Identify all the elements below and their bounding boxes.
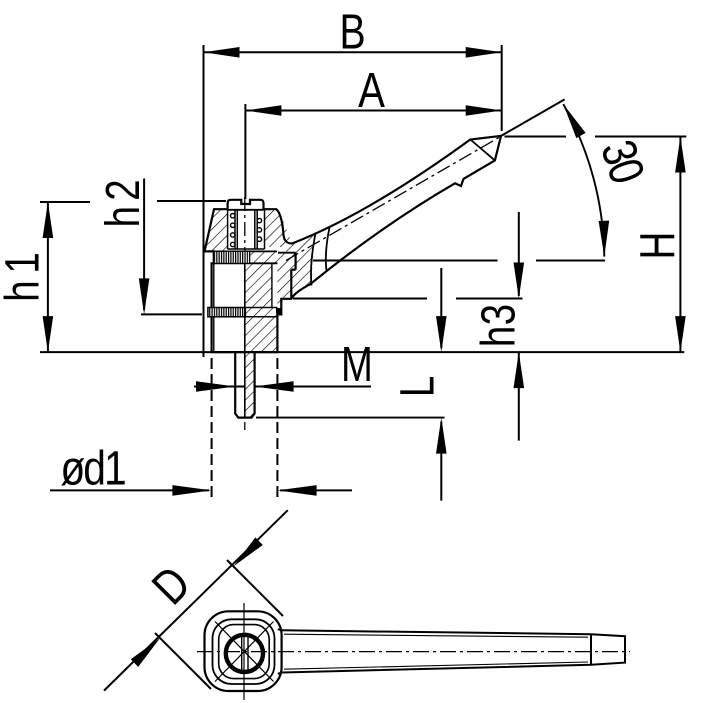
svg-text:h3: h3 bbox=[473, 304, 526, 347]
diagonals bbox=[215, 622, 274, 682]
body outline: hub + handle bbox=[205, 136, 502, 418]
handle bottom view bbox=[278, 629, 625, 674]
svg-text:A: A bbox=[358, 63, 385, 118]
wire: B dimension bbox=[204, 45, 502, 357]
curve A bbox=[311, 233, 316, 286]
wire: h2 dimension bbox=[139, 179, 226, 315]
lower serration band bbox=[208, 308, 246, 317]
bold circle bbox=[226, 635, 263, 672]
wire: cap bottom line bbox=[228, 209, 264, 211]
serration upper band bbox=[215, 252, 251, 263]
wire: h1 dimension bbox=[40, 202, 90, 352]
svg-text:ød1: ød1 bbox=[60, 442, 126, 495]
hatched region: hub right wall bbox=[265, 209, 284, 247]
wire: d1 dimension bbox=[50, 358, 352, 497]
flange lines bbox=[278, 252, 296, 254]
hatched region: bracket wedge bbox=[283, 220, 315, 299]
wire: 30 degree angle line bbox=[500, 99, 565, 136]
hatched region: right column of cylinder bbox=[245, 251, 296, 352]
wire: A dimension bbox=[245, 104, 501, 199]
svg-text:M: M bbox=[341, 337, 373, 392]
wire: tip inner line bbox=[470, 140, 495, 161]
curve B bbox=[326, 228, 330, 272]
wire: serration band bottom bbox=[214, 262, 278, 264]
insert (spring cartridge) bbox=[228, 210, 265, 249]
wire: h3 dimension bbox=[293, 212, 524, 441]
wire: outer outline bbox=[205, 136, 502, 352]
boss inner outlines bbox=[213, 619, 275, 684]
wire: handle axis dash-dot bbox=[286, 137, 500, 261]
node: centerline of screw bbox=[244, 197, 246, 430]
svg-text:B: B bbox=[340, 5, 366, 59]
svg-text:L: L bbox=[392, 376, 445, 397]
hatched region: stud right half bbox=[245, 352, 255, 418]
hatched region: hub left wall bbox=[205, 209, 228, 251]
svg-text:H: H bbox=[631, 232, 685, 260]
stud outline bbox=[235, 352, 254, 418]
wire: D dimension bbox=[104, 510, 288, 690]
wire: H dimension bbox=[505, 137, 687, 353]
wire: section boundary at centerline bbox=[244, 263, 246, 417]
wire: M dimension bbox=[194, 381, 371, 392]
wire: 30 degree arc bbox=[563, 104, 609, 257]
wire: inner sleeve edge lines bbox=[213, 263, 215, 307]
spring balls left bbox=[231, 214, 262, 247]
boss outer bbox=[205, 611, 282, 691]
wire: hub underside line bbox=[205, 250, 278, 252]
wire: horizontal angle reference line bbox=[286, 260, 498, 262]
centerlines bbox=[243, 603, 245, 700]
slot lines bbox=[241, 636, 243, 672]
wire: baseline (seating surface line) bbox=[40, 351, 684, 353]
wire: L dimension bbox=[256, 268, 447, 501]
